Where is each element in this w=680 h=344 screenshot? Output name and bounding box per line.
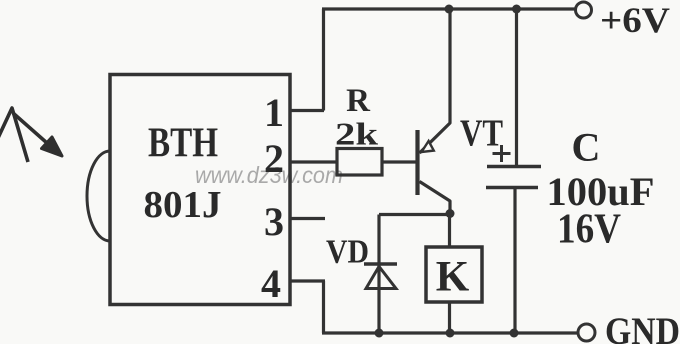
+6V terminal circle [576,2,592,18]
svg-text:BTH: BTH [148,121,218,167]
wire relay K to ground rail [448,302,451,333]
ground rail wire [322,331,577,334]
capacitor C wire bottom [513,188,516,333]
svg-text:4: 4 [261,261,281,306]
diode VD cathode bar [364,262,397,266]
svg-text:2: 2 [264,136,284,181]
GND terminal circle [578,324,595,341]
IR receiver dome [87,151,110,241]
transistor VT emitter arrowhead [422,141,434,152]
svg-text:GND: GND [605,310,680,344]
svg-text:3: 3 [264,199,284,244]
transistor VT collector lead [420,182,451,214]
pin 1 wire [290,109,324,112]
resistor R body [337,149,382,176]
relay K body [426,247,482,302]
pin 2 wire [290,160,338,163]
svg-text:K: K [436,254,470,301]
svg-text:801J: 801J [144,184,222,226]
svg-text:16V: 16V [557,207,621,253]
+6V rail wire [322,7,575,10]
junction node capacitor bottom [510,329,519,338]
svg-text:VD: VD [326,234,369,271]
junction node top collector [445,5,454,14]
capacitor C polarity plus [493,145,511,162]
capacitor C wire top [515,9,518,165]
pin 3 stub wire [290,217,325,220]
svg-text:1: 1 [264,90,284,135]
transistor VT emitter lead to +6V [420,9,451,153]
wire pin1 up to +6V rail [322,9,325,111]
diode VD triangle [366,267,396,289]
junction node relay bottom [446,329,455,338]
svg-text:+6V: +6V [600,0,670,40]
IC U1 BTH801J body [110,75,290,305]
wire pin4 down to ground rail [322,281,325,333]
wire node down to relay K [448,214,451,248]
wire resistor to base [382,160,416,163]
svg-text:R: R [346,83,371,119]
diode VD wire top [377,215,380,334]
IR signal arrow [0,108,62,162]
capacitor C bottom plate [486,186,538,190]
junction node top capacitor [512,5,521,14]
capacitor C top plate [487,165,541,169]
junction node VD bottom [375,329,384,338]
svg-text:2k: 2k [335,116,378,152]
junction node collector/VD/relay [446,209,455,218]
transistor VT base bar [415,130,419,195]
svg-text:C: C [572,125,601,170]
svg-text:VT: VT [460,113,503,155]
wire node to VD [379,213,450,216]
pin 4 wire [290,279,325,282]
